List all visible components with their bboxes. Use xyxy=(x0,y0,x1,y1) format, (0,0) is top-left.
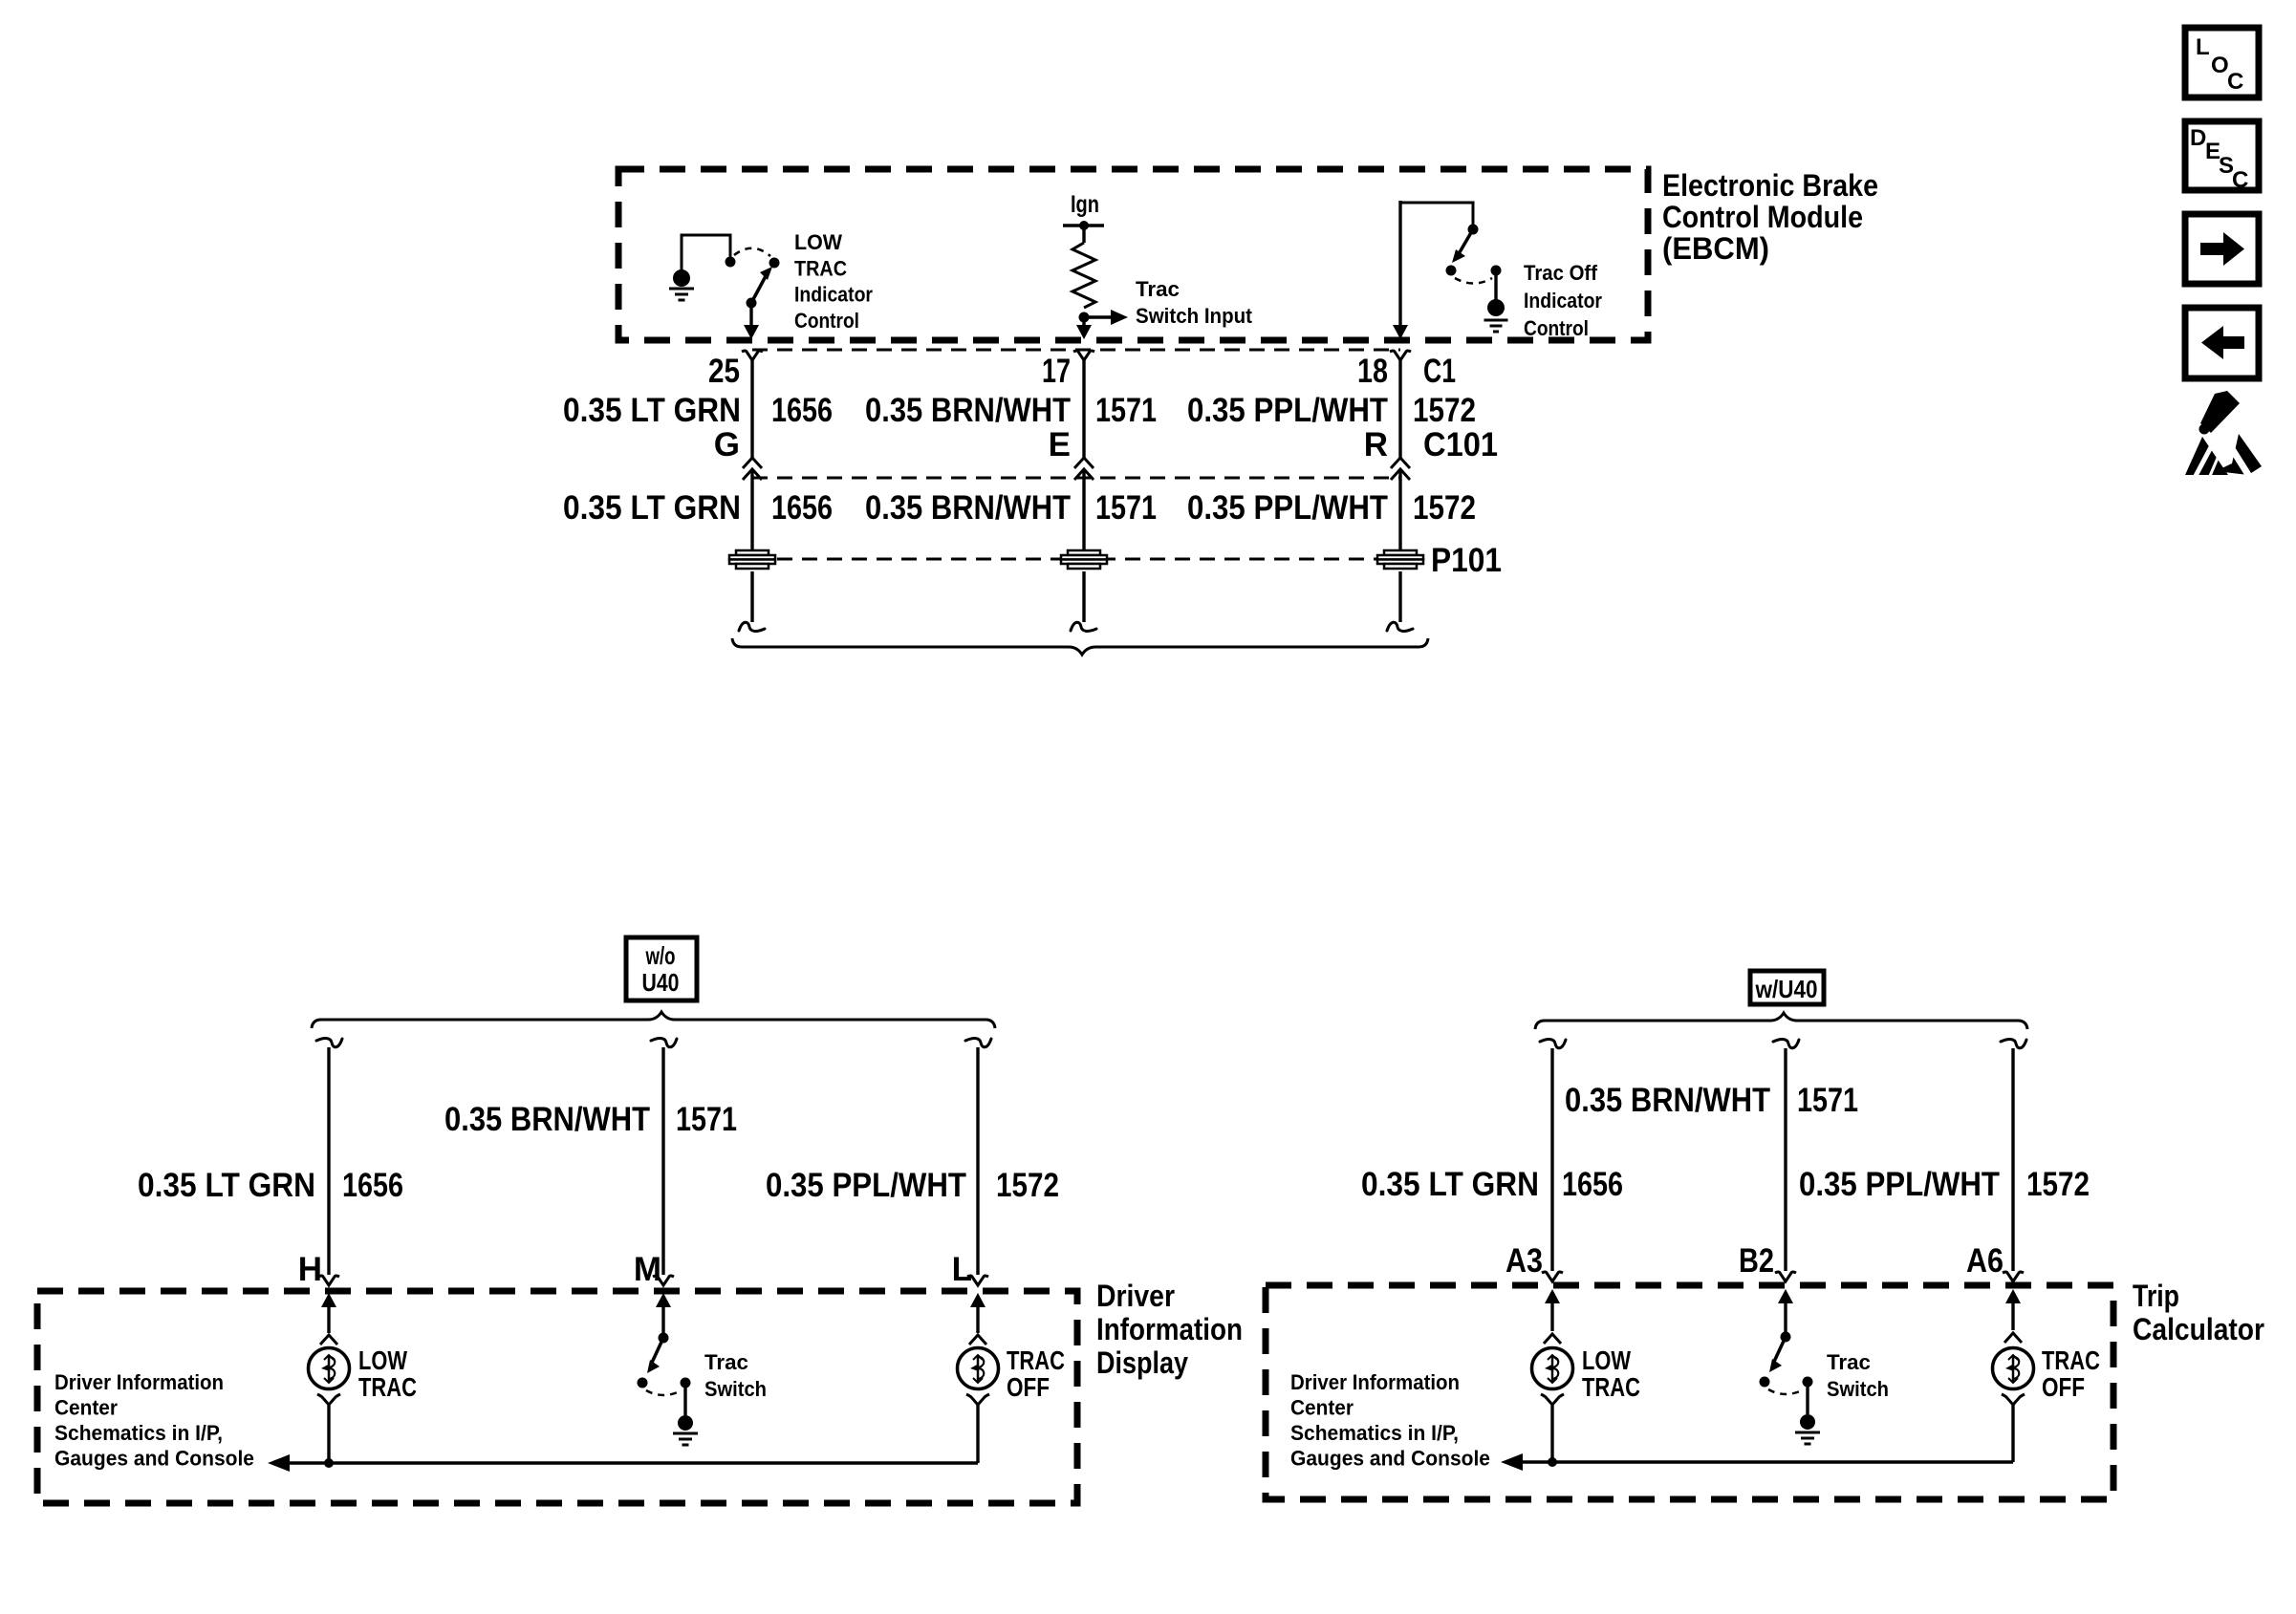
svg-text:Electronic Brake: Electronic Brake xyxy=(1662,168,1878,203)
svg-text:w/o: w/o xyxy=(645,941,676,970)
svg-text:LOW: LOW xyxy=(358,1345,407,1375)
svg-text:LOW: LOW xyxy=(1582,1345,1631,1375)
svg-text:Control Module: Control Module xyxy=(1662,200,1863,234)
svg-text:C1: C1 xyxy=(1423,353,1456,390)
svg-text:Gauges and Console: Gauges and Console xyxy=(1290,1447,1490,1471)
svg-text:TRAC: TRAC xyxy=(358,1372,417,1402)
svg-text:Switch: Switch xyxy=(704,1377,767,1401)
svg-text:Switch: Switch xyxy=(1827,1377,1889,1401)
svg-text:Indicator: Indicator xyxy=(1524,289,1602,312)
svg-text:Center: Center xyxy=(1290,1396,1354,1420)
svg-text:Calculator: Calculator xyxy=(2133,1312,2264,1346)
svg-text:O: O xyxy=(2211,53,2229,78)
svg-text:1571: 1571 xyxy=(676,1101,737,1138)
svg-text:Indicator: Indicator xyxy=(794,283,873,307)
svg-text:A6: A6 xyxy=(1966,1242,2004,1280)
svg-text:1571: 1571 xyxy=(1095,392,1157,429)
svg-text:Control: Control xyxy=(794,309,859,333)
svg-text:Center: Center xyxy=(54,1396,118,1420)
svg-text:C: C xyxy=(2227,69,2243,95)
svg-text:L: L xyxy=(952,1251,972,1288)
svg-text:1572: 1572 xyxy=(996,1167,1059,1204)
svg-text:0.35 BRN/WHT: 0.35 BRN/WHT xyxy=(865,489,1071,527)
svg-text:P101: P101 xyxy=(1431,542,1502,579)
svg-text:0.35 LT GRN: 0.35 LT GRN xyxy=(138,1167,315,1204)
svg-text:1572: 1572 xyxy=(1413,392,1476,429)
svg-text:Trac: Trac xyxy=(1136,277,1180,301)
svg-text:Trac: Trac xyxy=(704,1350,748,1374)
svg-text:0.35 LT GRN: 0.35 LT GRN xyxy=(563,392,741,429)
svg-text:B2: B2 xyxy=(1739,1242,1774,1280)
svg-text:Trac: Trac xyxy=(1827,1350,1871,1374)
svg-text:TRAC: TRAC xyxy=(1007,1345,1065,1375)
svg-text:C101: C101 xyxy=(1423,426,1498,463)
svg-text:Trip: Trip xyxy=(2133,1279,2179,1313)
svg-text:Display: Display xyxy=(1096,1345,1188,1380)
svg-text:D: D xyxy=(2190,125,2206,151)
svg-text:1656: 1656 xyxy=(771,489,833,527)
svg-text:A3: A3 xyxy=(1505,1242,1543,1280)
svg-text:Switch Input: Switch Input xyxy=(1136,304,1253,328)
svg-text:17: 17 xyxy=(1042,353,1071,390)
svg-text:H: H xyxy=(298,1251,322,1288)
svg-text:OFF: OFF xyxy=(2042,1372,2085,1402)
svg-text:1572: 1572 xyxy=(1413,489,1476,527)
svg-text:25: 25 xyxy=(708,353,740,390)
svg-text:(EBCM): (EBCM) xyxy=(1662,231,1769,266)
svg-text:0.35 PPL/WHT: 0.35 PPL/WHT xyxy=(1187,489,1388,527)
svg-text:Schematics in I/P,: Schematics in I/P, xyxy=(54,1421,223,1445)
svg-text:Schematics in I/P,: Schematics in I/P, xyxy=(1290,1421,1459,1445)
svg-text:18: 18 xyxy=(1357,353,1388,390)
svg-text:R: R xyxy=(1364,426,1388,463)
svg-text:Driver Information: Driver Information xyxy=(1290,1370,1460,1394)
svg-text:1656: 1656 xyxy=(1562,1166,1623,1203)
svg-text:OFF: OFF xyxy=(1007,1372,1050,1402)
svg-text:LOW: LOW xyxy=(794,230,842,254)
svg-text:w/U40: w/U40 xyxy=(1755,975,1818,1003)
svg-text:TRAC: TRAC xyxy=(794,256,847,280)
svg-text:TRAC: TRAC xyxy=(1582,1372,1640,1402)
svg-text:Information: Information xyxy=(1096,1312,1243,1346)
svg-text:1656: 1656 xyxy=(771,392,833,429)
svg-text:0.35 PPL/WHT: 0.35 PPL/WHT xyxy=(1799,1166,2000,1203)
svg-text:0.35 PPL/WHT: 0.35 PPL/WHT xyxy=(1187,392,1388,429)
svg-text:1656: 1656 xyxy=(342,1167,403,1204)
svg-text:1571: 1571 xyxy=(1095,489,1157,527)
svg-text:1572: 1572 xyxy=(2026,1166,2090,1203)
svg-text:TRAC: TRAC xyxy=(2042,1345,2100,1375)
svg-text:0.35 LT GRN: 0.35 LT GRN xyxy=(1361,1166,1539,1203)
svg-text:M: M xyxy=(634,1251,661,1288)
svg-text:Ign: Ign xyxy=(1071,191,1099,218)
svg-text:Gauges and Console: Gauges and Console xyxy=(54,1447,254,1471)
svg-text:Driver Information: Driver Information xyxy=(54,1370,224,1394)
svg-text:0.35 LT GRN: 0.35 LT GRN xyxy=(563,489,741,527)
svg-text:1571: 1571 xyxy=(1797,1082,1858,1119)
svg-text:0.35 BRN/WHT: 0.35 BRN/WHT xyxy=(444,1101,650,1138)
svg-text:0.35 PPL/WHT: 0.35 PPL/WHT xyxy=(766,1167,966,1204)
svg-text:E: E xyxy=(1049,426,1071,463)
svg-text:U40: U40 xyxy=(642,968,680,997)
svg-text:Control: Control xyxy=(1524,316,1589,340)
svg-text:Trac Off: Trac Off xyxy=(1524,261,1598,285)
svg-text:0.35 BRN/WHT: 0.35 BRN/WHT xyxy=(865,392,1071,429)
svg-text:0.35 BRN/WHT: 0.35 BRN/WHT xyxy=(1565,1082,1770,1119)
svg-text:L: L xyxy=(2196,34,2210,60)
svg-text:C: C xyxy=(2232,167,2248,193)
svg-text:G: G xyxy=(714,426,740,463)
svg-text:Driver: Driver xyxy=(1096,1279,1175,1313)
